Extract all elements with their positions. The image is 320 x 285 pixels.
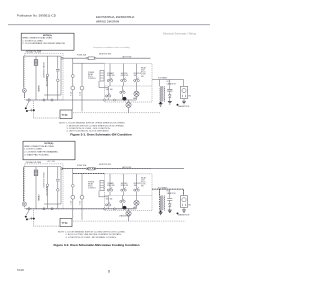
svg-text:MONITOR SW.: MONITOR SW. xyxy=(99,54,112,56)
relay coil RY2 (fig3-2) xyxy=(100,180,104,190)
wire motor branch (fig3-1) xyxy=(136,86,138,100)
svg-text:COOK: COOK xyxy=(141,184,146,186)
svg-text:MAGNETRON: MAGNETRON xyxy=(178,214,190,217)
wire chassis dashed bus (fig3-1) xyxy=(62,112,161,114)
svg-text:PRIMARY: PRIMARY xyxy=(107,182,114,185)
svg-text:CHOKE: CHOKE xyxy=(37,85,39,92)
label control unit lines (fig3-1) xyxy=(88,72,96,80)
svg-text:2. BOLD DOTTED LINE SHOWS CURR: 2. BOLD DOTTED LINE SHOWS CURRENT FLOW P… xyxy=(66,233,122,236)
svg-text:CAPACITOR: CAPACITOR xyxy=(45,76,48,87)
svg-text:1. DOOR CLOSED.: 1. DOOR CLOSED. xyxy=(24,149,43,151)
svg-text:WIRING DIAGRAM: WIRING DIAGRAM xyxy=(96,20,120,24)
svg-text:(RY-1): (RY-1) xyxy=(141,72,146,74)
wire relay branch B (fig3-1) xyxy=(81,63,83,111)
magnetron anode ring (fig3-1) xyxy=(182,89,186,93)
ground chassis transformer (fig3-1) xyxy=(160,102,162,104)
wire NF branch 1 (fig3-2) xyxy=(35,167,37,209)
wire NF branch 3 (fig3-1) xyxy=(57,56,59,100)
svg-text:TTM: TTM xyxy=(61,113,68,117)
note box figure 3-2 frame xyxy=(23,141,75,160)
svg-text:MG: MG xyxy=(188,95,191,97)
wire plug to chassis dashed (fig3-2) xyxy=(33,210,62,226)
wire latch branch 3 (fig3-1) xyxy=(136,64,138,86)
wire NF branch 1 (fig3-1) xyxy=(35,56,37,100)
note box figure 3-1 text xyxy=(22,35,65,45)
svg-text:INTLK SW.: INTLK SW. xyxy=(121,185,129,187)
svg-text:SECOND.: SECOND. xyxy=(121,73,129,75)
svg-text:MAGNETRON: MAGNETRON xyxy=(178,105,190,108)
varistor ZNR (fig3-1) xyxy=(34,60,38,66)
wire relay coil down (fig3-1) xyxy=(99,81,108,88)
label interlock switch 1 (fig3-1) xyxy=(107,72,115,77)
junction ring NF to top wire (fig3-2) xyxy=(61,168,63,170)
interlock switch 1 (fig3-2) xyxy=(107,187,113,191)
wire NF inner bottom (fig3-1) xyxy=(44,94,61,96)
svg-text:TTM: TTM xyxy=(61,221,68,225)
secondary switch lower (fig3-2) xyxy=(106,195,111,208)
svg-text:UNIT: UNIT xyxy=(141,180,145,182)
wall outlet symbol (fig3-1) xyxy=(22,89,26,93)
svg-text:COOK: COOK xyxy=(141,74,147,76)
label interlock switch 1 (fig3-2) xyxy=(107,182,115,187)
wire diode to ground (fig3-2) xyxy=(169,206,171,210)
junction rings NF bottom (fig3-1) xyxy=(43,99,53,101)
power plug prongs (fig3-2) xyxy=(25,216,35,221)
svg-text:AC LINE: AC LINE xyxy=(48,160,56,163)
latch box divider dashed (fig3-2) xyxy=(105,194,153,196)
timer box TTM (fig3-2) xyxy=(60,218,72,226)
svg-text:RY-2: RY-2 xyxy=(78,92,80,96)
label interlock switch 3 (fig3-2) xyxy=(134,183,142,187)
turntable motor (fig3-1) xyxy=(126,100,131,113)
ground chassis diode (fig3-2) xyxy=(168,210,172,212)
wire latch branch 1 (fig3-2) xyxy=(109,174,111,195)
svg-text:H.V.TRANS: H.V.TRANS xyxy=(158,77,168,80)
wire NF inner right edge (fig3-2) xyxy=(60,167,62,204)
junction rings lower bus (fig3-2) xyxy=(104,208,116,210)
HV capacitor plates (fig3-2) xyxy=(167,199,172,201)
svg-text:RELAY: RELAY xyxy=(141,66,146,69)
fan motor circle (fig3-2) xyxy=(134,200,139,205)
junction ring NF to top wire (fig3-1) xyxy=(61,57,63,59)
svg-text:3. CONDITION OF OVEN : OFF CON: 3. CONDITION OF OVEN : OFF CONDITION. xyxy=(67,128,111,130)
wire capacitor to diode (fig3-2) xyxy=(169,201,171,204)
wire capacitor to diode (fig3-1) xyxy=(169,91,171,94)
wire relay branch B (fig3-2) xyxy=(81,173,83,219)
junction ring plug (fig3-1) xyxy=(28,99,30,101)
svg-text:EW27MO55HA, EW30MO55HA: EW27MO55HA, EW30MO55HA xyxy=(96,15,134,19)
timer box TTM (fig3-1) xyxy=(60,110,72,119)
svg-text:(RY-1): (RY-1) xyxy=(141,182,146,184)
HV diode (fig3-1) xyxy=(168,95,171,98)
wire motor branch (fig3-2) xyxy=(136,195,138,208)
transformer core (fig3-1) xyxy=(162,86,163,102)
ground chassis transformer (fig3-2) xyxy=(160,210,162,212)
wire chassis dashed bus (fig3-2) xyxy=(62,220,186,222)
label relay block lines (fig3-2) xyxy=(141,177,146,188)
label HV capacitor (fig3-1) xyxy=(167,81,177,85)
label HV capacitor (fig3-2) xyxy=(167,191,177,195)
power plug prongs (fig3-1) xyxy=(25,107,35,112)
wire feed to transformer (fig3-2) xyxy=(159,189,161,195)
magnetron anode ring (fig3-2) xyxy=(182,198,186,202)
relay contact RY1 (fig3-2) xyxy=(71,195,75,199)
svg-text:NOTE(S):: NOTE(S): xyxy=(44,143,54,145)
wire latch branch 2 (fig3-1) xyxy=(123,64,125,86)
svg-text:FUSE 20A: FUSE 20A xyxy=(77,164,87,167)
wire feed to magnetron (fig3-1) xyxy=(183,80,185,86)
svg-text:2. COOKING TIME PROGRAMMED.: 2. COOKING TIME PROGRAMMED. xyxy=(24,151,59,154)
terminal ring A (fig3-1) xyxy=(71,75,74,78)
wire left supply rail (fig3-1) xyxy=(23,56,25,88)
label interlock switch 3 (fig3-1) xyxy=(134,73,142,77)
wire feed to magnetron (fig3-2) xyxy=(183,189,185,195)
wire main lower bus (fig3-2) xyxy=(26,208,136,210)
label relay block lines (fig3-1) xyxy=(141,66,147,77)
wire relay coil down (fig3-2) xyxy=(99,191,108,197)
noise filter dashed box (fig3-2) xyxy=(25,164,63,209)
door switch pair (fig3-1) xyxy=(120,86,125,100)
wire latch box to transformer feed (fig3-2) xyxy=(152,188,184,190)
header rule xyxy=(8,24,210,26)
wire mid line (fig3-1) xyxy=(73,62,105,64)
svg-text:WIRE CONNECTION AT OVEN.: WIRE CONNECTION AT OVEN. xyxy=(22,37,52,40)
svg-text:CONTROL: CONTROL xyxy=(88,188,96,190)
resistor terminal ring (fig3-1) xyxy=(57,79,60,82)
noise filter dashed box (fig3-1) xyxy=(25,53,63,100)
wire latch branch 3 (fig3-2) xyxy=(136,174,138,195)
HV diode (fig3-2) xyxy=(168,204,171,206)
svg-text:SEC. SW.: SEC. SW. xyxy=(106,89,113,91)
wire relay branch A (fig3-1) xyxy=(72,58,74,110)
svg-text:Figure 3-2. Oven Schematic-Mi: Figure 3-2. Oven Schematic-Microwave Coo… xyxy=(54,243,140,247)
wire plug to chassis dashed (fig3-1) xyxy=(33,101,62,118)
notes list under figure 3-2 xyxy=(58,231,126,238)
svg-text:INTLK SW.: INTLK SW. xyxy=(107,75,115,77)
highlight current path dotted (fig3-2) xyxy=(24,168,184,210)
relay contact RY1 (fig3-1) xyxy=(71,86,75,90)
svg-text:CHOKE: CHOKE xyxy=(37,195,39,202)
svg-text:Figure 3-1. Oven Schematic-Of: Figure 3-1. Oven Schematic-Off Condition xyxy=(70,133,131,137)
relay contact RY2 (fig3-2) xyxy=(80,195,84,199)
wire main lower bus (fig3-1) xyxy=(26,99,136,101)
latch box divider dashed (fig3-1) xyxy=(105,85,153,87)
svg-text:WIRE CONNECTION AT OVEN.: WIRE CONNECTION AT OVEN. xyxy=(24,145,54,148)
oven lamp (fig3-2) xyxy=(123,206,127,210)
resistor terminal ring (fig3-2) xyxy=(57,189,60,191)
latch switch dashed box (fig3-1) xyxy=(105,64,153,102)
capacitor C1 terminal (fig3-2) xyxy=(46,184,49,186)
wire NF inner right edge (fig3-1) xyxy=(60,56,62,95)
capacitor C2 plates (fig3-1) xyxy=(56,69,60,71)
interlock switch 3 (fig3-2) xyxy=(134,187,140,191)
wire mid line (fig3-2) xyxy=(73,172,105,174)
svg-text:POWER: POWER xyxy=(88,182,95,184)
wire latch branch 2 (fig3-2) xyxy=(123,174,125,195)
turntable motor (fig3-2) xyxy=(126,209,131,221)
svg-text:RY-2: RY-2 xyxy=(78,201,80,205)
svg-text:LATCH SW.: LATCH SW. xyxy=(122,55,132,58)
svg-text:SEC. SW.: SEC. SW. xyxy=(106,198,113,200)
wall outlet symbol (fig3-2) xyxy=(22,202,26,206)
svg-text:(RY-2): (RY-2) xyxy=(88,76,93,78)
interlock switch 1 (fig3-1) xyxy=(107,78,113,82)
svg-text:SW.: SW. xyxy=(141,186,144,188)
transformer secondary coil (fig3-1) xyxy=(163,86,166,101)
wire transformer to ground (fig3-2) xyxy=(160,211,162,212)
magnetron body (fig3-1) xyxy=(181,86,188,98)
wire transformer to ground (fig3-1) xyxy=(160,102,162,103)
magnetron body (fig3-2) xyxy=(181,196,188,208)
svg-text:RY-1: RY-1 xyxy=(69,92,71,96)
transformer primary coil (fig3-1) xyxy=(159,86,162,101)
latch switch dashed box (fig3-2) xyxy=(105,174,153,211)
svg-text:MG: MG xyxy=(188,204,191,206)
transformer secondary coil (fig3-2) xyxy=(163,196,166,211)
wire diode to ground (fig3-1) xyxy=(169,98,171,102)
junction rings lower bus (fig3-1) xyxy=(104,99,116,101)
svg-text:1. DOOR IS CLOSED.: 1. DOOR IS CLOSED. xyxy=(22,40,43,42)
svg-text:Publication No. 5995611-CD: Publication No. 5995611-CD xyxy=(17,13,57,17)
wire top line bus (fig3-1) xyxy=(62,57,151,59)
door switch pair (fig3-2) xyxy=(120,195,125,208)
relay contact RY2 (fig3-1) xyxy=(80,86,84,90)
svg-text:5318: 5318 xyxy=(17,268,24,272)
wire top line bus (fig3-2) xyxy=(62,168,184,170)
wire NF top connector (fig3-1) xyxy=(24,55,61,57)
ground chassis magnetron (fig3-1) xyxy=(177,104,179,106)
wire magnetron to ground (fig3-1) xyxy=(183,99,185,101)
transformer core (fig3-2) xyxy=(162,195,163,210)
label control unit lines (fig3-2) xyxy=(88,182,96,190)
wire feed to capacitor (fig3-1) xyxy=(169,80,171,90)
svg-text:NOTE: 1. DOOR SENSING SWITCH: NOTE: 1. DOOR SENSING SWITCH OPENS WHEN … xyxy=(59,123,126,125)
junction ring plug (fig3-2) xyxy=(28,208,30,210)
svg-text:(component conditions shown at: (component conditions shown at standby) xyxy=(93,46,130,49)
interlock switch 2 (fig3-1) xyxy=(121,78,127,82)
wire magnetron to ground (fig3-2) xyxy=(183,207,185,209)
magnetron filament (fig3-2) xyxy=(183,204,186,206)
svg-text:CONTROL: CONTROL xyxy=(88,78,96,80)
svg-text:SECOND.: SECOND. xyxy=(121,183,129,185)
svg-text:8: 8 xyxy=(108,269,110,273)
wire NF top connector (fig3-2) xyxy=(24,166,61,168)
note box figure 3-2 text xyxy=(24,143,59,157)
ground chassis magnetron (fig3-2) xyxy=(177,212,179,214)
relay coil RY2 (fig3-1) xyxy=(100,71,104,82)
svg-text:CAPACITOR: CAPACITOR xyxy=(45,186,48,197)
label interlock switch 2 (fig3-1) xyxy=(121,73,129,77)
svg-text:3. START PAD TOUCHED.: 3. START PAD TOUCHED. xyxy=(24,154,49,157)
svg-text:(RY-2): (RY-2) xyxy=(88,186,93,188)
svg-text:CHOKE COIL ASSY: CHOKE COIL ASSY xyxy=(42,62,45,79)
label interlock switch 2 (fig3-2) xyxy=(121,183,129,187)
wire relay branch A (fig3-2) xyxy=(72,169,74,219)
capacitor C1 terminal (fig3-1) xyxy=(46,74,49,77)
fuse F1 (fig3-2) xyxy=(86,167,96,169)
wire latch box to transformer feed (fig3-1) xyxy=(152,79,184,81)
wire outlet to plug (fig3-2) xyxy=(24,206,29,215)
svg-text:INTLK SW.: INTLK SW. xyxy=(121,75,129,77)
svg-text:SW.: SW. xyxy=(141,76,144,78)
transformer primary coil (fig3-2) xyxy=(159,196,162,211)
svg-text:2. MONITOR SWITCH CLOSES WHEN: 2. MONITOR SWITCH CLOSES WHEN DOOR IS OP… xyxy=(67,125,125,127)
svg-text:RELAY: RELAY xyxy=(141,177,146,180)
wire NF branch 2 (fig3-2) xyxy=(47,167,49,209)
note box figure 3-1 frame xyxy=(21,33,74,50)
notes list under figure 3-1 xyxy=(59,123,126,133)
svg-text:MONITOR SW.: MONITOR SW. xyxy=(99,164,112,166)
svg-text:NOTE(S):: NOTE(S): xyxy=(43,35,53,37)
fuse F1 (fig3-1) xyxy=(86,57,96,60)
interlock switch 3 (fig3-1) xyxy=(134,78,140,82)
HV capacitor plates (fig3-1) xyxy=(167,89,172,91)
svg-text:UNIT: UNIT xyxy=(141,70,145,72)
wire feed to transformer (fig3-1) xyxy=(159,80,161,87)
wire NF inner bottom (fig3-2) xyxy=(44,203,61,205)
svg-text:3. CONDITION OF OVEN : MICROWA: 3. CONDITION OF OVEN : MICROWAVE COOKING… xyxy=(66,236,117,239)
wire outlet to plug (fig3-1) xyxy=(24,93,29,107)
interlock switch 2 (fig3-2) xyxy=(121,187,127,191)
wire NF branch 3 (fig3-2) xyxy=(57,167,59,209)
svg-text:POWER: POWER xyxy=(88,72,95,74)
varistor ZNR (fig3-2) xyxy=(34,170,38,176)
wire left supply rail (fig3-2) xyxy=(23,167,25,202)
secondary switch lower (fig3-1) xyxy=(106,86,111,100)
fan motor circle (fig3-1) xyxy=(134,91,139,96)
capacitor C2 plates (fig3-2) xyxy=(56,179,60,181)
wire latch branch 1 (fig3-1) xyxy=(109,64,111,86)
magnetron filament (fig3-1) xyxy=(183,95,186,97)
svg-text:CHOKE COIL ASSY: CHOKE COIL ASSY xyxy=(42,172,45,188)
junction rings NF bottom (fig3-2) xyxy=(43,208,53,210)
svg-text:PRIMARY: PRIMARY xyxy=(107,72,114,75)
ground chassis diode (fig3-1) xyxy=(168,101,172,104)
terminal ring A (fig3-2) xyxy=(71,184,74,187)
svg-text:2. CLOCK APPEARS ON DISPLAY W: 2. CLOCK APPEARS ON DISPLAY WINDOW. xyxy=(22,42,65,45)
wire feed to capacitor (fig3-2) xyxy=(169,189,171,198)
wire NF branch 2 (fig3-1) xyxy=(47,56,49,100)
svg-text:FUSE 20A: FUSE 20A xyxy=(77,53,87,56)
oven lamp (fig3-1) xyxy=(123,97,127,101)
svg-text:Electrical Schematic / Wiring: Electrical Schematic / Wiring xyxy=(163,32,196,36)
svg-text:NOTE: 1. DOOR SENSING SWITCH: NOTE: 1. DOOR SENSING SWITCH CLOSED WITH… xyxy=(58,231,126,233)
svg-text:RY-1: RY-1 xyxy=(69,201,71,205)
svg-text:INTLK SW.: INTLK SW. xyxy=(107,185,115,187)
